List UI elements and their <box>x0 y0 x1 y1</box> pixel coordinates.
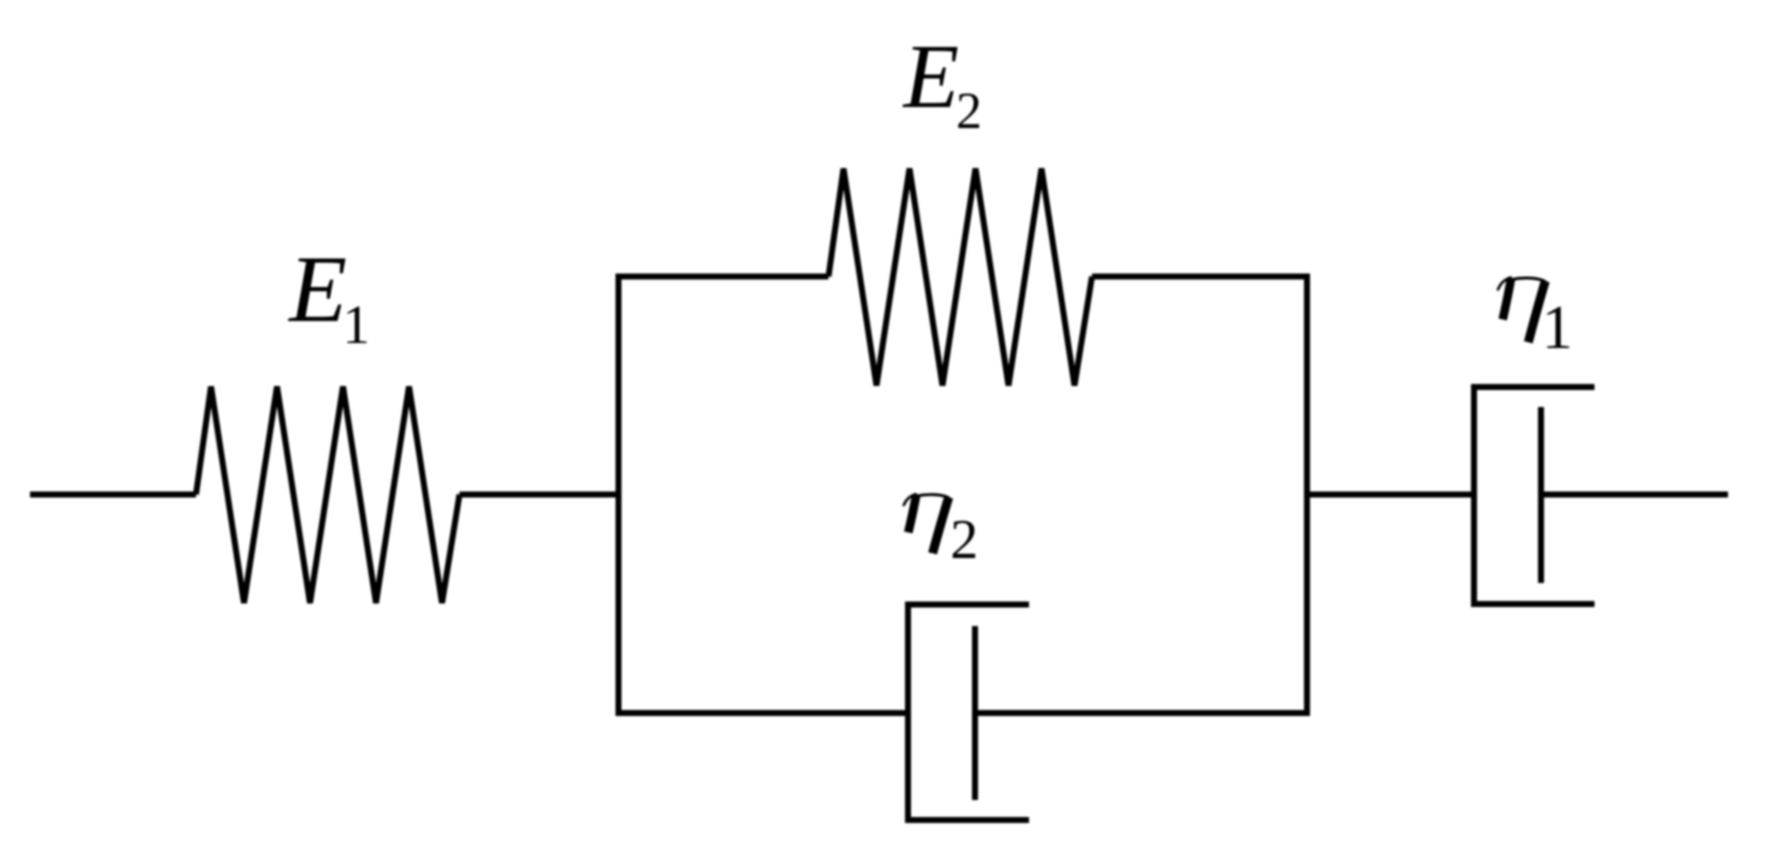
wire bottom branch left <box>616 710 908 716</box>
wire from right bar to dashpot eta1 <box>1307 492 1474 498</box>
wire top branch right <box>1092 274 1310 280</box>
svg-text:2: 2 <box>950 509 978 571</box>
label E2 <box>902 26 983 140</box>
label E1 <box>287 236 370 355</box>
svg-text:2: 2 <box>956 83 982 140</box>
wire between E1 and parallel block <box>460 492 619 498</box>
dashpot eta1 cup <box>1474 387 1595 604</box>
dashpot eta2 piston <box>972 626 978 800</box>
wire left lead <box>30 492 196 498</box>
svg-text:E: E <box>902 26 960 127</box>
wire bottom branch right <box>975 710 1310 716</box>
spring E2 <box>829 169 1093 386</box>
dashpot eta2 cup <box>908 605 1029 821</box>
spring E1 <box>196 387 460 604</box>
svg-text:1: 1 <box>343 294 371 355</box>
dashpot eta1 piston <box>1538 407 1544 583</box>
svg-text:E: E <box>287 236 347 342</box>
label eta2 <box>904 494 978 571</box>
label eta1 <box>1498 278 1573 363</box>
svg-text:1: 1 <box>1542 294 1573 362</box>
wire right rod lead <box>1541 492 1728 498</box>
wire top branch left <box>616 274 829 280</box>
node right junction bar <box>1304 274 1310 717</box>
node left junction bar <box>616 274 622 717</box>
